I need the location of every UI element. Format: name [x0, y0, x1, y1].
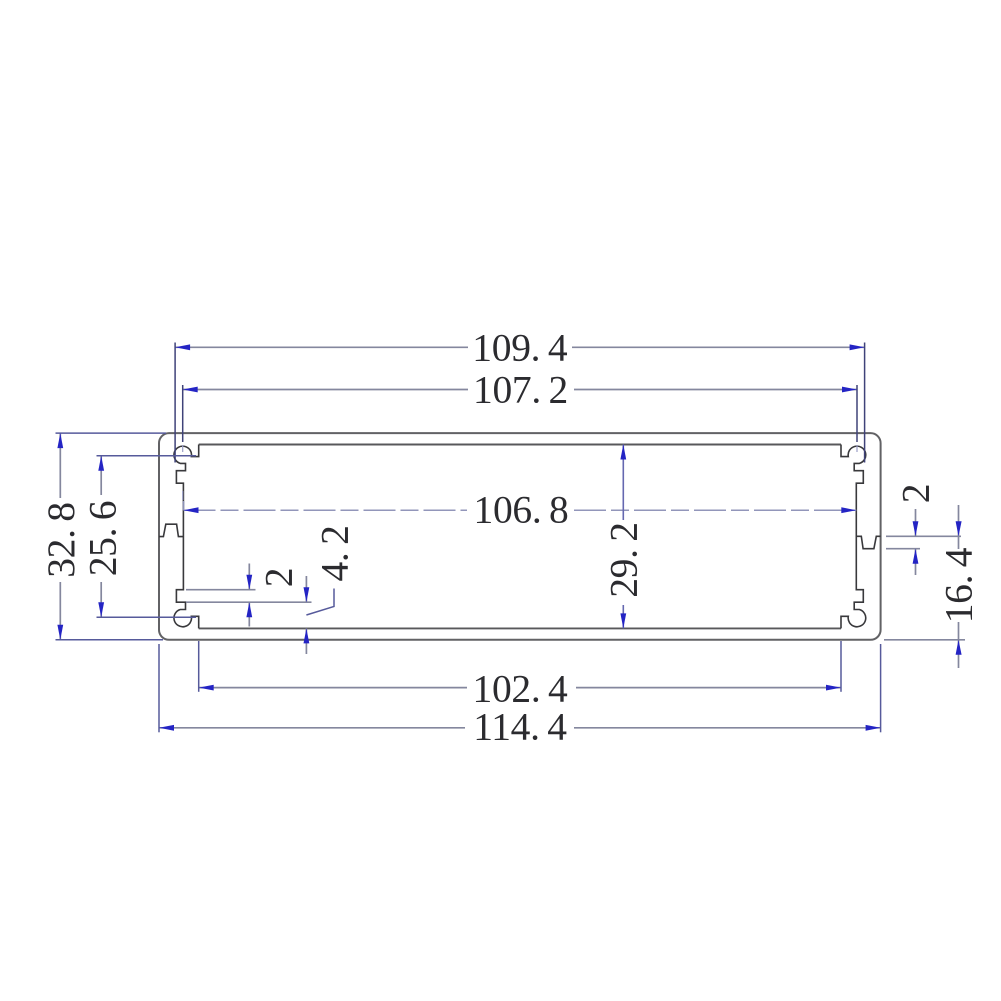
dimension 16.4 arrows [956, 521, 962, 536]
svg-text:2: 2 [894, 484, 938, 503]
dimension 16.4 lines [884, 505, 965, 668]
dimension 114.4 arrows [159, 725, 174, 731]
dimension 25.6 arrows [98, 456, 104, 471]
dimension 29.2 lines [622, 445, 624, 629]
dimension 25.6 lines [97, 456, 197, 618]
dimension 114.4 lines [159, 644, 881, 732]
dimension 4.2 lines [306, 576, 334, 654]
svg-text:4. 2: 4. 2 [313, 525, 357, 581]
dimension 2 right lines [886, 509, 961, 575]
dimension 2 left arrows [246, 575, 252, 590]
profile outer outline [159, 433, 881, 640]
svg-text:25. 6: 25. 6 [81, 501, 125, 577]
dimension 107.2 lines [183, 385, 857, 500]
dimension 102.4 arrows [199, 685, 214, 691]
svg-text:114. 4: 114. 4 [473, 705, 567, 749]
svg-text:29. 2: 29. 2 [601, 522, 645, 598]
svg-text:106. 8: 106. 8 [474, 488, 569, 532]
dimension 2 right arrows [913, 521, 919, 536]
dimension 106.8 arrows [184, 507, 199, 513]
dimension 32.8 lines [56, 433, 167, 640]
profile right inner contour with screw bosses and grooves [841, 445, 866, 629]
dimension 32.8 arrows [57, 433, 63, 448]
dimension 4.2 arrows [304, 587, 310, 602]
profile left wall slide tab [159, 524, 183, 536]
svg-text:107. 2: 107. 2 [473, 368, 568, 412]
svg-text:109. 4: 109. 4 [472, 326, 568, 370]
dimension 107.2 arrows [183, 387, 198, 393]
svg-text:16. 4: 16. 4 [937, 547, 981, 623]
svg-text:32. 8: 32. 8 [39, 502, 83, 578]
dimension 109.4 lines [175, 343, 865, 463]
dimension 2 left lines [186, 564, 312, 627]
profile left inner contour with screw bosses and grooves [174, 445, 199, 629]
dimension 109.4 arrows [175, 344, 190, 350]
profile inner top wall line [199, 444, 841, 446]
dimension 29.2 arrows [620, 445, 626, 460]
profile right wall slide tab [856, 536, 880, 548]
dimension 106.8 dashed line [184, 501, 857, 510]
dimension 102.4 lines [199, 641, 841, 692]
profile inner bottom wall line [199, 627, 841, 629]
svg-text:2: 2 [257, 568, 301, 587]
